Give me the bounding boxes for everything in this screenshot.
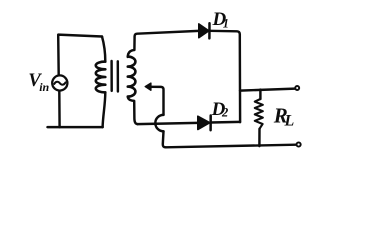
- resistor RL zigzag: [255, 99, 263, 129]
- wire primary loop top-left: [58, 35, 102, 76]
- transformer core: [110, 61, 113, 91]
- wire D1 cathode to output vertical: [209, 31, 240, 122]
- ac source sine symbol: [54, 82, 65, 85]
- output terminal bottom: [297, 142, 301, 146]
- resistor RL top lead: [259, 90, 261, 99]
- wire secondary top lead to D1: [128, 31, 199, 57]
- svg-text:2: 2: [221, 106, 228, 120]
- diode D2 triangle: [198, 116, 210, 129]
- svg-text:in: in: [39, 80, 49, 94]
- output terminal top: [295, 86, 299, 90]
- wire primary loop left-bottom: [58, 90, 61, 127]
- svg-text:1: 1: [223, 17, 229, 31]
- wire hop over D2 wire: [155, 115, 163, 131]
- wire center tap arrow shaft: [150, 87, 163, 115]
- resistor RL bottom lead: [258, 129, 261, 146]
- transformer primary winding L1: [102, 37, 105, 62]
- wire secondary bottom lead: [128, 97, 138, 125]
- wire D2 anode horizontal: [138, 123, 198, 124]
- wire D2 cathode to vertical: [211, 121, 240, 124]
- ac source Vin circle: [52, 75, 67, 90]
- center tap arrowhead: [145, 83, 151, 90]
- wire output rail to top terminal: [240, 89, 295, 91]
- wire center tap down to bottom rail: [163, 131, 166, 147]
- wire bottom rail to bottom terminal: [166, 145, 297, 148]
- wire primary loop bottom: [48, 126, 103, 128]
- diode D2 cathode bar: [209, 116, 212, 131]
- diode D1 cathode bar: [208, 23, 211, 38]
- svg-text:L: L: [284, 113, 295, 130]
- transformer secondary winding L2: [128, 57, 136, 97]
- diode D1 triangle: [199, 24, 209, 38]
